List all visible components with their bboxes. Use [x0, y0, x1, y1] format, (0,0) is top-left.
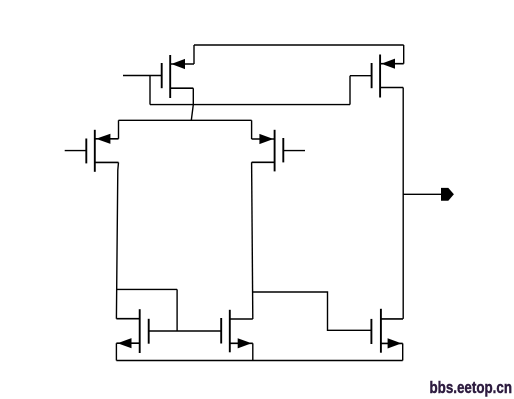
wire M7 source down to bottom rail [402, 343, 404, 360]
watermark text bbs.eetop.cn [430, 378, 513, 397]
transistor M2 (top-right PMOS) [350, 55, 404, 98]
wire M1 drain down to mid bus (slanted) [191, 88, 193, 120]
transistor M4 (right input device, mirrored) [252, 130, 305, 172]
wire M1 drain up to top rail [193, 45, 195, 64]
wire M1 gate down-jog [149, 76, 151, 105]
wire gate bus (M1 gate to M2 gate, y=104.6) [150, 104, 350, 106]
wire M3 source down to M5 drain (long, slight slant) [116, 162, 118, 318]
wire M3 drain up to mid bus [118, 120, 120, 139]
wire mirror tap vertical [176, 289, 178, 331]
transistor M3 (left input device) [65, 130, 119, 172]
transistor M5 (bottom-left mirror device, gate on right) [116, 309, 148, 353]
wire output stub [403, 193, 441, 195]
wire M4 drain up to mid bus [251, 120, 253, 139]
svg-text:bbs.eetop.cn: bbs.eetop.cn [430, 378, 513, 397]
wire top rail [194, 44, 404, 46]
transistor M7 (output device) [371, 309, 403, 353]
wire M2 gate down-jog [349, 76, 351, 105]
wire M6 source down to bottom rail [252, 343, 254, 360]
wire mirror tap horizontal (drain-gate tie) [116, 288, 177, 290]
transistor M1 (top-left diode-connected PMOS) [123, 55, 194, 98]
wire M6 drain branch to M7 gate [252, 292, 371, 330]
wire mid bus (y=120.3) [119, 119, 252, 121]
output arrow marker [441, 188, 454, 201]
wire M4 source down to M6 drain (long, slight slant) [252, 162, 253, 319]
transistor M6 (bottom-middle mirror device) [221, 310, 253, 353]
wire mirror gate bus (M5 gate to M6 gate) [149, 330, 222, 332]
wire right vertical (M2 source to M7 drain / output node) [402, 88, 404, 319]
wire M2 drain up to top rail [403, 45, 405, 64]
wire M5 source down to bottom rail [115, 343, 117, 360]
wire bottom rail [116, 360, 402, 362]
